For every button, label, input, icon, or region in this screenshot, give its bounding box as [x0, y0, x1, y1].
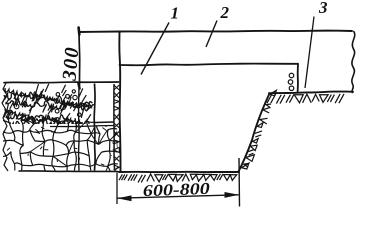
top line of wall and covering, y=31 [79, 31, 352, 32]
svg-text:1: 1 [171, 4, 180, 23]
rubble masonry texture [0, 108, 123, 179]
slope of trench right wall [239, 94, 270, 172]
leader line 3 [305, 17, 314, 89]
berm line y=64 [120, 64, 299, 66]
trench bottom y=172 [119, 171, 239, 173]
trench left wall vertical x=120 [119, 32, 120, 172]
topsoil scribble hatch [2, 84, 96, 128]
ground line left y=82 [4, 81, 119, 84]
svg-text:3: 3 [318, 0, 328, 17]
arrowhead right [225, 192, 239, 198]
foundation vertical x=94.5 [93, 84, 96, 171]
slope hatch [242, 90, 277, 169]
leader line 2 [206, 21, 217, 48]
masonry course line y=126 [50, 126, 114, 127]
rubble block bottom line y=171 [19, 170, 118, 173]
jagged left break edge [2, 83, 8, 171]
ground hatch right of trench [267, 94, 344, 104]
dimension 300 bottom tick [78, 84, 79, 89]
berm step vertical x=298 [297, 64, 299, 93]
leader line 1 [141, 23, 169, 75]
dimension 300 vertical line x=79 [78, 31, 81, 87]
trench face hatch strip [114, 85, 120, 170]
arrowhead left [117, 195, 131, 201]
ground surface right y=92 [269, 92, 353, 94]
foundation vertical x=114 [113, 84, 116, 171]
break edge squiggle right [352, 32, 355, 93]
dimension extension tick top-left [77, 28, 80, 35]
svg-text:2: 2 [220, 3, 230, 22]
ground hatch below trench bottom [119, 174, 237, 183]
svg-text:600-800: 600-800 [142, 179, 210, 200]
three small circles (drain) [288, 73, 294, 90]
white footing recess bottom y=122 [95, 121, 114, 124]
svg-text:300: 300 [58, 45, 83, 82]
extension line left x=117 [116, 173, 118, 205]
dimension line 600-800 [118, 195, 239, 198]
foundation inner vertical x=79 below ground [78, 88, 81, 171]
extension line right x=239 [238, 158, 241, 207]
